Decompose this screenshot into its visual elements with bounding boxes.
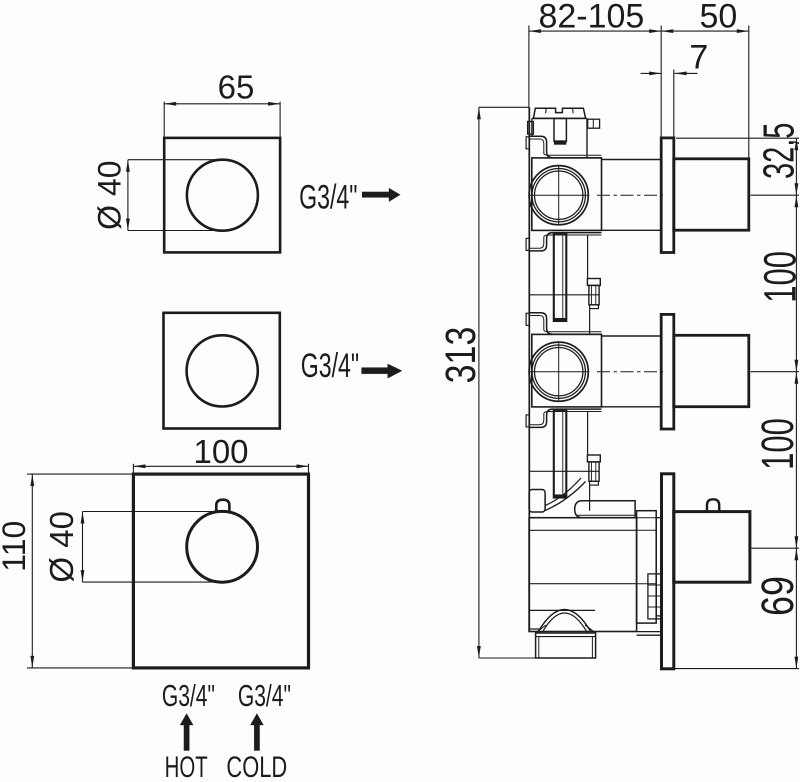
dim 100a arrow down: [795, 360, 799, 372]
station2 lower bracket outline: [529, 409, 601, 427]
station2 sleeve tube bottom line: [602, 406, 662, 408]
station1 side fitting ridge: [592, 119, 594, 128]
station2 upper bracket inner line: [529, 316, 601, 332]
station2 cartridge ring middle: [532, 345, 585, 398]
gap2 side fitting inner right: [595, 462, 597, 481]
station3 cartridge stack: [637, 511, 657, 623]
right col extension line at CL3: [752, 547, 800, 549]
station3 bottom tube line upper: [637, 631, 662, 633]
O40 plate3 arrow down: [81, 570, 85, 582]
dimension 313 line: [478, 107, 480, 658]
gap2 rear vertical edge: [587, 412, 589, 455]
station3 outlet dome left foot: [536, 625, 546, 633]
station3 temperature knob side: [674, 512, 750, 583]
station3 rail ear block: [529, 490, 545, 513]
svg-text:65: 65: [218, 69, 255, 106]
gap1 lower vertical edge: [589, 309, 591, 335]
dim 313 extension line bottom: [479, 657, 536, 659]
station1 upper rail tab: [526, 137, 529, 149]
station1 bonnet left edge: [531, 118, 533, 136]
station3 outlet dome outer arc: [538, 610, 591, 633]
dim 82-105 arrow right: [649, 29, 661, 33]
station1 knurled cap: [533, 108, 585, 118]
station3 adjuster nut: [648, 574, 662, 619]
station2 cartridge ring outer: [529, 342, 588, 401]
flow arrow right station1: [362, 188, 400, 202]
dim 313 arrow up: [477, 107, 481, 119]
dim 313 extension line top: [479, 106, 529, 108]
hot inlet block arrow up: [180, 713, 193, 750]
station2 wall plate side: [661, 314, 674, 429]
station3 thermostat body block: [529, 518, 637, 632]
station3 knob ridge: [707, 499, 719, 511]
station3 adjuster nut ridge3: [648, 606, 662, 608]
gap2 push rod inner line: [562, 410, 564, 496]
handle circle O40 on plate 1: [187, 160, 258, 231]
mounting rail vertical edge: [528, 107, 530, 631]
dim 50 arrow left: [661, 29, 673, 33]
dimension 100 arrow left: [133, 464, 145, 468]
station2 valve body block: [532, 334, 602, 407]
dimension 100 line: [133, 465, 308, 467]
station1 cap knurl tick left: [545, 108, 548, 113]
station1 cartridge ring outer: [529, 166, 588, 225]
station2 upper bracket outline: [529, 313, 601, 334]
station1 lower bracket outline: [529, 233, 601, 251]
station3 adjuster nut ridge2: [648, 595, 662, 597]
svg-text:82-105: 82-105: [538, 0, 644, 35]
station2 handle side: [674, 335, 749, 406]
dim 50 extension line right: [748, 26, 750, 159]
svg-text:32,5: 32,5: [753, 123, 800, 180]
station1 crosshair vertical: [558, 166, 560, 225]
station1 upper bracket outline: [529, 136, 601, 157]
station2 lower rail tab: [526, 415, 529, 427]
dimension 50 line: [661, 30, 749, 32]
svg-text:100: 100: [753, 418, 800, 470]
station2 center line: [597, 371, 663, 373]
cold inlet block arrow up: [250, 713, 263, 750]
dim 7 arrow pointing left: [675, 72, 687, 76]
station3 wall plate side: [662, 474, 674, 669]
svg-text:G3/4": G3/4": [301, 348, 359, 385]
dim 313 arrow down: [477, 646, 481, 658]
station2 sleeve tube top line: [602, 335, 662, 337]
dimension 100 extension line right: [308, 464, 310, 474]
svg-text:313: 313: [437, 327, 485, 384]
station3 outlet dome right foot: [585, 625, 596, 633]
station1 center line: [597, 194, 663, 196]
right col extension line at CL1: [751, 194, 800, 196]
svg-text:7: 7: [689, 38, 708, 76]
gap2 push rod dark tip: [554, 495, 566, 498]
dimension 82-105 line: [529, 30, 661, 32]
station3 cartridge stack seam2: [637, 529, 657, 531]
station1 handle side: [674, 159, 749, 230]
gap1 side fitting cap: [587, 279, 600, 286]
O40 plate1 arrow down: [126, 219, 130, 231]
station1 side fitting: [588, 119, 600, 128]
dimension 7 tail right: [675, 72, 698, 74]
station3 outlet inner left: [538, 637, 540, 658]
dim 32,5 arrow down: [795, 183, 799, 195]
dimension 65 arrow left: [164, 102, 176, 106]
station1 stem dark tip: [554, 141, 566, 145]
dimension 65 arrow right: [268, 102, 280, 106]
station3 outlet dome inner arc: [543, 613, 588, 632]
station1 stem: [554, 118, 566, 141]
dimension 100a line: [795, 195, 797, 372]
dim 50 arrow right: [737, 29, 749, 33]
station3 cartridge top bar inner line: [576, 514, 635, 516]
station3 body seam upper: [529, 529, 637, 531]
gap2 side fitting cap: [587, 455, 600, 462]
station1 wall plate side: [661, 138, 674, 253]
front plate square 100x110 (thermostat): [133, 474, 308, 668]
gap1 side fitting inner left: [591, 285, 593, 304]
station1 sleeve tube top line: [602, 159, 662, 161]
dim 7 extension line right: [673, 70, 675, 140]
right col extension line at plate3 bottom: [675, 668, 799, 670]
station1 valve body block: [532, 158, 602, 231]
dim 69 arrow up: [795, 548, 799, 560]
svg-text:100: 100: [193, 433, 248, 470]
gap2 body joint line: [529, 470, 599, 472]
svg-text:Ø 40: Ø 40: [92, 161, 128, 230]
gap1 rear vertical edge: [587, 235, 589, 278]
station3 swoosh inner curve: [545, 478, 581, 506]
O40 plate1 top extension line: [128, 159, 222, 161]
dimension 100 extension line left: [132, 464, 134, 474]
station2 cartridge ring inner: [535, 348, 583, 396]
station1 sleeve tube bottom line: [602, 229, 662, 231]
dim 100a arrow up: [795, 195, 799, 207]
svg-text:Ø 40: Ø 40: [43, 511, 80, 583]
dimension 65 extension line right: [279, 102, 281, 138]
station1 cap knurl tick right: [572, 108, 575, 113]
thermostat knob ridge front: [216, 500, 229, 512]
station3 cartridge stack seam3: [637, 583, 657, 585]
O40 plate1 dimension line: [127, 160, 129, 231]
gap1 push rod dark tip: [554, 318, 566, 321]
station2 crosshair horizontal: [529, 371, 590, 373]
station3 cartridge stack seam1: [637, 517, 657, 519]
flow arrow right station2: [362, 364, 403, 379]
O40 plate3 bottom extension line: [83, 581, 223, 583]
svg-text:G3/4": G3/4": [238, 678, 291, 713]
station3 body seam bottom: [529, 609, 595, 611]
dimension 65 line: [164, 103, 280, 105]
right col extension line at CL2: [751, 371, 800, 373]
O40 plate3 arrow up: [81, 512, 85, 524]
dimension 69 line: [795, 548, 797, 668]
O40 plate3 top extension line: [83, 511, 217, 513]
station1 lower rail tab: [526, 238, 529, 250]
dim 32,5 arrow up: [795, 138, 799, 150]
station3 bottom tube line lower: [637, 634, 662, 636]
dimension 65 extension line left: [163, 102, 165, 138]
gap1 body joint line: [529, 294, 599, 296]
svg-text:G3/4": G3/4": [299, 179, 357, 216]
O40 plate1 arrow up: [126, 160, 130, 172]
station1 crosshair horizontal: [529, 194, 590, 196]
gap1 side fitting foot: [590, 305, 599, 309]
station1 upper bracket inner line: [529, 139, 601, 155]
svg-text:G3/4": G3/4": [162, 678, 215, 713]
svg-text:50: 50: [699, 0, 737, 35]
gap2 side fitting body: [589, 462, 599, 481]
station2 upper rail tab: [526, 313, 529, 325]
gap2 push rod: [554, 410, 567, 498]
dim 100b arrow up: [795, 372, 799, 384]
station3 outlet flange line: [536, 636, 596, 638]
svg-text:HOT: HOT: [165, 751, 208, 782]
dim 69 arrow down: [795, 657, 799, 669]
handle circle O40 on plate 2: [187, 335, 258, 406]
station1 cartridge ring middle: [532, 169, 585, 222]
dim 7 arrow pointing right: [649, 72, 661, 76]
gap1 side fitting body: [589, 285, 599, 304]
svg-text:100: 100: [756, 251, 800, 303]
station1 cap tab on rail: [528, 122, 534, 135]
O40 plate3 dimension line: [82, 512, 84, 583]
svg-text:110: 110: [0, 521, 32, 572]
dimension 110 arrow down: [30, 656, 34, 668]
dimension 7 tail left: [641, 72, 662, 74]
dimension 110 line: [31, 474, 33, 668]
front plate square 65x65 (middle volume control): [164, 313, 280, 429]
gap1 push rod: [554, 233, 567, 321]
station3 adjuster nut ridge1: [648, 584, 662, 586]
O40 plate1 bottom extension line: [128, 230, 222, 232]
station1 bonnet right edge: [586, 118, 588, 157]
thermostat knob circle O40: [187, 511, 258, 582]
station2 lower bracket inner line: [529, 412, 601, 425]
svg-text:69: 69: [752, 576, 800, 616]
station3 rail foot: [529, 629, 539, 633]
station3 body seam lower: [529, 583, 637, 585]
dim 82-105 extension line left: [528, 26, 530, 108]
station1 cap base line: [532, 117, 587, 119]
gap2 side fitting inner left: [591, 462, 593, 481]
dimension 110 arrow up: [30, 474, 34, 486]
dimension 100b line: [795, 372, 797, 549]
dimension 110 extension line top: [27, 473, 133, 475]
station3 outlet inner right: [591, 637, 593, 658]
dimension 100 arrow right: [297, 464, 309, 468]
svg-text:COLD: COLD: [226, 750, 287, 782]
right col extension line at plate top: [676, 137, 799, 139]
station3 outlet box: [536, 633, 596, 658]
dim 82-105 arrow left: [529, 29, 541, 33]
dim 100b arrow down: [795, 536, 799, 548]
station1 cartridge ring inner: [535, 171, 583, 219]
station3 cartridge collar: [656, 518, 661, 616]
dim chain extension line middle: [660, 26, 662, 139]
dimension 32,5 line: [795, 138, 797, 195]
gap1 push rod inner line: [562, 233, 564, 319]
station2 crosshair vertical: [558, 342, 560, 401]
gap2 side fitting foot: [590, 481, 599, 485]
dimension 110 extension line bottom: [27, 667, 133, 669]
station1 lower bracket inner line: [529, 235, 601, 248]
front plate square 65x65 (top volume control): [164, 138, 280, 253]
gap2 lower vertical edge: [589, 485, 591, 511]
station3 swoosh outer curve: [545, 482, 585, 511]
gap1 side fitting inner right: [595, 285, 597, 304]
station3 cartridge top bar: [575, 501, 635, 518]
